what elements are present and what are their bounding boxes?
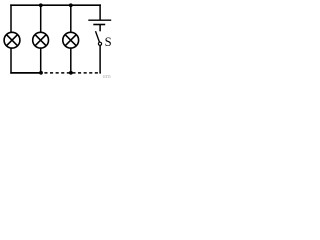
lamp L1 bbox=[4, 32, 20, 48]
node junction dot top right bbox=[69, 3, 73, 7]
lamp L2 bbox=[33, 32, 49, 48]
node junction dot bottom right lamp bbox=[69, 71, 73, 75]
wire right lamp branch upper bbox=[70, 4, 72, 32]
wire left branch lower bbox=[10, 48, 12, 74]
wire battery to switch bbox=[99, 25, 101, 32]
svg-text:um: um bbox=[103, 73, 111, 78]
battery negative plate bbox=[93, 24, 105, 26]
switch S blade bbox=[96, 31, 100, 42]
switch S contact circle bbox=[98, 42, 101, 45]
wire left branch upper bbox=[10, 4, 12, 32]
node junction dot bottom middle bbox=[39, 71, 43, 75]
svg-text:S: S bbox=[105, 35, 112, 49]
wire middle branch upper bbox=[40, 4, 42, 32]
wire battery feed bbox=[99, 4, 101, 20]
wire top bus bbox=[10, 4, 101, 6]
wire middle branch lower bbox=[40, 48, 42, 73]
node junction dot top middle bbox=[39, 3, 43, 7]
battery positive plate bbox=[88, 19, 111, 21]
wire switch to bottom bbox=[99, 46, 101, 74]
wire right lamp branch lower bbox=[70, 48, 72, 73]
wire bottom bus dashed part bbox=[44, 72, 101, 74]
wire bottom bus solid part bbox=[10, 72, 42, 74]
lamp L3 bbox=[63, 32, 79, 48]
